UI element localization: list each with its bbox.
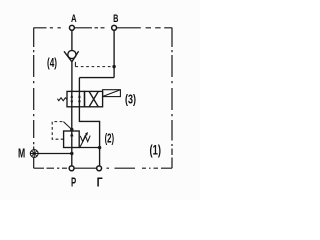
svg-text:(4): (4): [47, 55, 57, 70]
wire M to P line: [38, 153, 72, 155]
reducing valve V2 (2) adjust arrow: [80, 134, 87, 148]
svg-text:B: B: [113, 13, 118, 25]
valve V1 (3) right position box: [85, 91, 103, 106]
enclosure (1) bottom border dash-dot: [34, 167, 172, 169]
valve V1 (3) crossed paths X: [89, 92, 98, 107]
wire check valve to valve (3) port A1: [71, 62, 73, 92]
svg-text:A: A: [71, 13, 77, 25]
reducing valve V2 (2) internal arrow up: [70, 132, 73, 137]
enclosure (1) right border dash-dot: [171, 28, 173, 168]
reducing valve V2 (2) drain line to T: [79, 147, 99, 149]
wire B elbow left: [79, 77, 114, 79]
junction dot pilot/B: [112, 65, 115, 68]
wire B down: [113, 30, 115, 77]
svg-text:(2): (2): [105, 131, 115, 146]
valve V1 (3) left position box: [67, 91, 85, 106]
port B circle: [112, 25, 117, 30]
reducing valve V2 (2) internal flow line: [71, 131, 73, 148]
check valve C1 (4) seat: [64, 51, 79, 62]
pilot line dashed to B line: [75, 66, 114, 68]
reducing valve V2 (2) body box: [64, 131, 80, 148]
svg-text:P: P: [71, 176, 76, 190]
reducing valve V2 (2) pilot dashed loop: [52, 122, 63, 140]
enclosure (1) top border dash-dot: [34, 27, 173, 29]
junction dot pilot/main line: [70, 128, 73, 131]
svg-text:M: M: [18, 146, 25, 161]
port P circle: [69, 166, 74, 171]
wire T-return from valve (3): [79, 107, 99, 166]
wire through reducing valve down to P: [71, 148, 73, 166]
reducing valve V2 (2) pilot diagonal to main line: [63, 122, 71, 130]
junction dot M/P line: [70, 152, 73, 155]
pilot line stub from check valve: [74, 62, 76, 67]
check valve C1 (4) ball circle: [68, 50, 76, 58]
valve V1 (3) solenoid diagonal: [103, 90, 120, 97]
port T circle: [97, 166, 102, 171]
svg-text:Г: Г: [97, 176, 103, 190]
valve V1 (3) straight path 1 with double arrowheads: [71, 91, 73, 106]
enclosure (1) left border dash-dot: [33, 28, 35, 168]
wire valve (3) to reducing valve (2): [71, 107, 73, 131]
valve V1 (3) solenoid box: [103, 90, 121, 97]
wire A down to check valve: [71, 30, 73, 50]
valve V1 (3) straight path 2 with double arrowheads: [78, 91, 80, 106]
wire B down into valve (3): [78, 78, 80, 92]
reducing valve V2 (2) adjustable spring: [80, 136, 90, 142]
svg-text:(1): (1): [150, 143, 162, 158]
svg-text:(3): (3): [125, 92, 136, 107]
port A circle: [69, 25, 74, 30]
valve V1 (3) spring left: [57, 98, 67, 101]
junction dot drain/T line: [98, 146, 101, 149]
gauge port M symbol: [30, 150, 38, 158]
